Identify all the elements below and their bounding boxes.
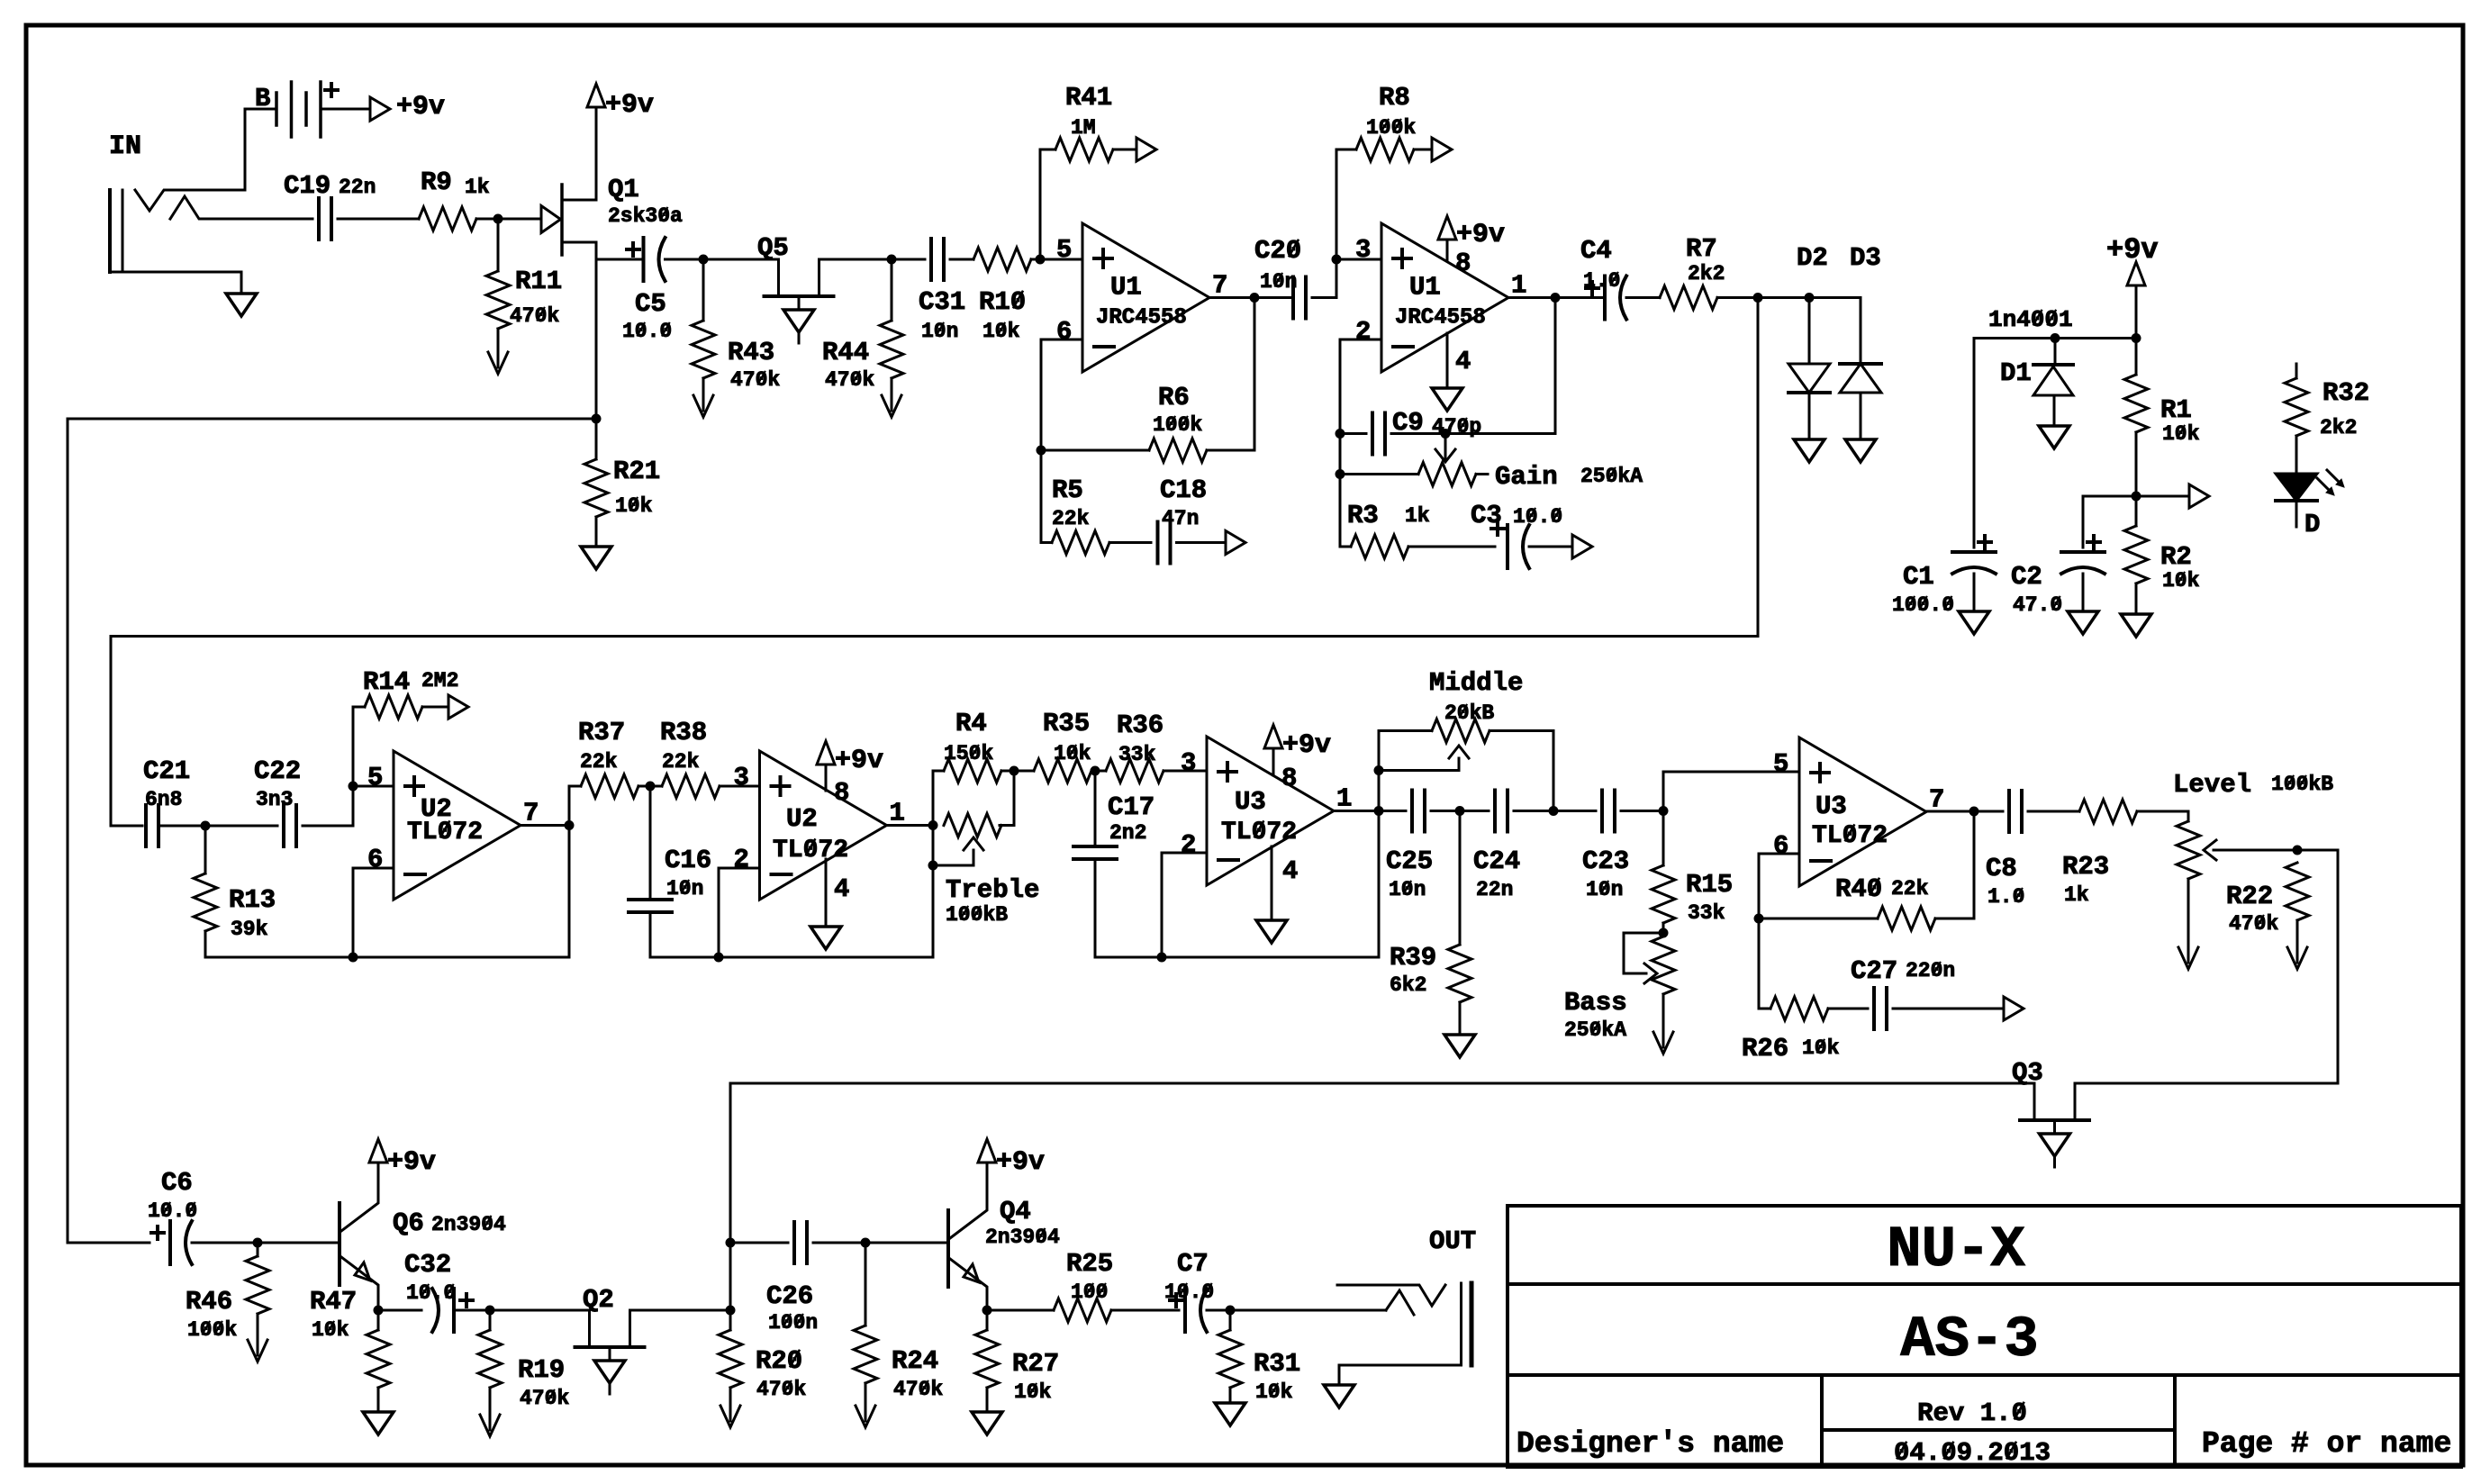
pin 2 label xyxy=(1181,830,1196,860)
wire C24 to node xyxy=(1514,810,1553,812)
wire node to U3b pin5 xyxy=(1663,772,1799,811)
label C22 xyxy=(254,756,301,786)
wire supply rail xyxy=(1974,337,2136,339)
label +9v supply xyxy=(2106,233,2159,267)
transistor Q3 xyxy=(2020,1083,2089,1134)
pin 1 label xyxy=(1511,271,1526,301)
label 10k R31 xyxy=(1255,1380,1293,1404)
label U3 xyxy=(1815,792,1847,821)
wire C20 up to R8 xyxy=(1312,149,1336,298)
svg-text:Q5: Q5 xyxy=(757,233,789,263)
label 10n C23 xyxy=(1586,878,1623,901)
wire C1 to ground xyxy=(1973,574,1976,611)
diode D2 xyxy=(1788,298,1830,394)
label C19 xyxy=(284,171,330,201)
wire R36 to U3 pin3 xyxy=(1164,770,1207,773)
svg-text:7: 7 xyxy=(1212,271,1227,301)
wire emitter to R27 xyxy=(986,1310,989,1330)
label JRC4558 xyxy=(1096,306,1187,330)
wire feedback to output xyxy=(1378,811,1381,958)
capacitor C22 xyxy=(284,805,296,846)
Gain pot wiper arrow xyxy=(1435,449,1455,462)
ground arrow under R24 xyxy=(856,1403,875,1427)
label 10k R1 xyxy=(2162,422,2200,446)
wire Treble track to node xyxy=(1000,771,1014,826)
ground under D3 xyxy=(1845,439,1876,462)
wire C2 to ground xyxy=(2082,574,2085,611)
wire U2 pin6 down xyxy=(353,868,394,957)
svg-text:150k: 150k xyxy=(944,742,993,765)
wire battery minus lead xyxy=(245,108,276,111)
wire C27 to arrow xyxy=(1893,1008,2004,1010)
svg-text:R13: R13 xyxy=(229,885,276,915)
transistor Q2 gate ground xyxy=(594,1361,625,1394)
resistor R36 xyxy=(1106,759,1164,783)
wire R19 to ground xyxy=(489,1388,492,1412)
svg-text:R26: R26 xyxy=(1742,1034,1788,1063)
wire Q3 gate row xyxy=(731,1082,2034,1085)
wire to D3 xyxy=(1809,298,1861,365)
svg-text:R37: R37 xyxy=(578,718,625,747)
resistor R47 xyxy=(367,1330,390,1388)
label 22k R5 xyxy=(1052,507,1090,530)
wire U1b output xyxy=(1508,296,1555,299)
wire U3b pin6 down xyxy=(1759,854,1799,918)
wire node to U1 pin 5 xyxy=(1040,258,1082,261)
svg-text:C21: C21 xyxy=(143,756,190,786)
label 2n3904 Q6 xyxy=(431,1213,506,1236)
label C6 xyxy=(161,1168,193,1198)
label R8 xyxy=(1379,83,1410,113)
label 1n4001 xyxy=(1988,306,2073,333)
capacitor C31 xyxy=(931,239,944,280)
wire node to Q1 gate xyxy=(498,218,541,221)
junction R15/Bass xyxy=(1659,928,1669,938)
svg-text:R7: R7 xyxy=(1686,234,1717,264)
resistor R40 xyxy=(1878,907,1935,930)
svg-text:C16: C16 xyxy=(665,846,711,875)
pin 2 label xyxy=(1355,317,1371,347)
label 100k R6 xyxy=(1153,413,1202,437)
label R35 xyxy=(1043,709,1090,738)
svg-text:R23: R23 xyxy=(2062,852,2109,882)
label Page # or name xyxy=(2202,1427,2451,1461)
wire C6 to node xyxy=(192,1242,258,1244)
label +9v Q6 xyxy=(387,1147,436,1178)
svg-text:C22: C22 xyxy=(254,756,301,786)
svg-text:39k: 39k xyxy=(231,918,268,941)
svg-text:D1: D1 xyxy=(2000,358,2032,388)
junction pin6/R40/R26 xyxy=(1754,914,1764,924)
svg-text:C18: C18 xyxy=(1160,475,1207,505)
wire node to C24 xyxy=(1460,810,1489,812)
wire emitter to R25 xyxy=(987,1309,1054,1312)
label U1 xyxy=(1409,273,1441,303)
label 1k R3 xyxy=(1405,504,1430,528)
wire R8 to arrow xyxy=(1414,149,1432,151)
Treble wiper wire xyxy=(933,850,973,865)
wire source node to left rail xyxy=(68,418,596,421)
label 2n3904 Q4 xyxy=(985,1226,1060,1249)
LED emission arrows xyxy=(2317,470,2344,495)
label C4 xyxy=(1580,236,1612,266)
svg-text:R3: R3 xyxy=(1347,501,1379,530)
ground under U3a pin 4 xyxy=(1256,920,1287,943)
label 22n C24 xyxy=(1476,878,1513,901)
wire R35 to node xyxy=(1091,770,1095,773)
label 100.0 C1 xyxy=(1892,593,1954,617)
junction Middle left xyxy=(1374,765,1384,775)
wire Q2 to node xyxy=(630,1309,731,1312)
ground arrow under R22 xyxy=(2287,945,2307,969)
capacitor C25 xyxy=(1412,791,1425,832)
wire node to R46 xyxy=(257,1243,259,1256)
label 10n C25 xyxy=(1389,878,1426,901)
svg-text:Designer's name: Designer's name xyxy=(1517,1427,1784,1461)
label 6n8 C21 xyxy=(145,788,182,811)
pin 6 label xyxy=(1056,317,1072,347)
svg-text:1k: 1k xyxy=(1405,504,1430,528)
wire R47 to ground xyxy=(377,1388,380,1412)
label TL072 xyxy=(1812,822,1888,850)
junction pin5/R14 xyxy=(349,782,358,792)
label 47.0 C2 xyxy=(2013,593,2062,617)
svg-text:R9: R9 xyxy=(421,167,452,197)
pin 2 label xyxy=(734,845,749,874)
wire Level wiper down to Q3 xyxy=(2078,850,2338,1083)
label C20 xyxy=(1254,236,1301,266)
wire U2b output xyxy=(887,824,934,827)
wire R13 to feedback row xyxy=(205,931,569,957)
label C9 xyxy=(1392,408,1424,438)
wire R43 to ground xyxy=(702,378,705,393)
junction C7/R31 xyxy=(1226,1306,1236,1316)
ground under U1b pin 4 xyxy=(1432,388,1462,411)
label D3 xyxy=(1850,243,1881,273)
arrow +9v at U1b pin 8 xyxy=(1438,216,1456,240)
svg-text:Rev 1.0: Rev 1.0 xyxy=(1917,1398,2027,1428)
label 470p C9 xyxy=(1432,415,1481,439)
wire C3 to arrow xyxy=(1529,546,1572,548)
wire C18 to arrow xyxy=(1177,541,1226,544)
ground arrow under R11 xyxy=(488,349,508,374)
svg-text:R1: R1 xyxy=(2160,395,2192,425)
junction U2b out/Treble xyxy=(928,820,938,830)
svg-text:2n2: 2n2 xyxy=(1109,821,1146,845)
wire C26 to node xyxy=(813,1242,865,1244)
svg-text:R8: R8 xyxy=(1379,83,1410,113)
label JRC4558 xyxy=(1395,306,1486,330)
wire node to D2 xyxy=(1758,296,1809,299)
label 250kA Bass xyxy=(1564,1018,1626,1042)
wire C7 to node xyxy=(1207,1309,1230,1312)
label Bass xyxy=(1564,988,1627,1018)
ground under C2 xyxy=(2068,611,2098,634)
label C8 xyxy=(1986,854,2017,883)
capacitor C7 (polarized) xyxy=(1185,1289,1207,1332)
svg-text:R11: R11 xyxy=(515,267,562,296)
pin 7 label xyxy=(1929,785,1944,815)
junction U3a out xyxy=(1374,806,1384,816)
label 2k2 R7 xyxy=(1688,262,1725,285)
svg-text:470k: 470k xyxy=(730,368,780,392)
wire U3a pin2 down xyxy=(1162,853,1207,957)
svg-text:AS-3: AS-3 xyxy=(1900,1308,2039,1373)
wire D3 to ground xyxy=(1860,393,1862,439)
label 10.0 C32 xyxy=(406,1281,456,1305)
transistor Q3 gate ground xyxy=(2040,1134,2070,1167)
label +9v U3a xyxy=(1282,730,1331,761)
wire node to R13 xyxy=(204,826,207,873)
wire stage1 to stage2 xyxy=(111,298,1758,827)
svg-text:2k2: 2k2 xyxy=(2320,416,2357,439)
svg-text:100kB: 100kB xyxy=(2271,773,2333,796)
label C25 xyxy=(1386,846,1433,876)
capacitor C20 xyxy=(1293,277,1306,319)
label 10n C20 xyxy=(1260,270,1297,294)
junction R35/R36/C17 xyxy=(1091,766,1100,776)
svg-text:Q4: Q4 xyxy=(1000,1197,1031,1226)
svg-text:JRC4558: JRC4558 xyxy=(1096,306,1187,330)
junction U1 out/R6/C20 xyxy=(1250,293,1260,303)
svg-text:R4: R4 xyxy=(955,709,987,738)
wire R32 top stub xyxy=(2295,364,2298,378)
svg-text:10n: 10n xyxy=(666,877,703,900)
resistor R35 xyxy=(1034,759,1091,783)
wire D1 to ground xyxy=(2053,395,2056,426)
svg-text:100n: 100n xyxy=(768,1311,818,1335)
label B xyxy=(255,84,270,113)
junction pin2/C9/Gain xyxy=(1336,429,1345,439)
svg-text:R41: R41 xyxy=(1065,83,1112,113)
svg-text:R14: R14 xyxy=(363,667,410,697)
svg-text:20kB: 20kB xyxy=(1444,701,1494,725)
C32 plus sign xyxy=(460,1294,473,1307)
svg-text:1: 1 xyxy=(1511,271,1526,301)
junction D1 xyxy=(2051,333,2060,343)
svg-text:C32: C32 xyxy=(404,1250,451,1280)
transistor Q1 channel bar xyxy=(560,185,564,255)
label 10k R26 xyxy=(1802,1036,1840,1060)
label Gain xyxy=(1495,462,1558,492)
label C2 xyxy=(2011,562,2042,592)
wire U3a pin 4 stub xyxy=(1271,846,1273,920)
label R31 xyxy=(1254,1349,1300,1379)
wire R1 to node xyxy=(2135,432,2138,496)
resistor R8 xyxy=(1356,138,1414,161)
junction Q1 source node xyxy=(592,414,602,424)
C7 plus sign xyxy=(1170,1294,1182,1307)
label R19 xyxy=(518,1355,565,1385)
potentiometer Treble track xyxy=(944,814,1001,837)
transistor Q5 xyxy=(765,259,834,310)
svg-text:C26: C26 xyxy=(766,1281,813,1311)
pin 5 label xyxy=(1773,749,1788,779)
label Treble xyxy=(946,875,1039,905)
transistor Q4 xyxy=(948,1163,987,1310)
svg-text:Bass: Bass xyxy=(1564,988,1627,1018)
wire node down to R5 xyxy=(1041,450,1052,543)
svg-text:250kA: 250kA xyxy=(1580,465,1643,488)
pin 8 label U2b xyxy=(834,778,849,808)
svg-text:220n: 220n xyxy=(1906,959,1955,982)
wire Q1 source down xyxy=(564,242,596,419)
wire node to R31 xyxy=(1229,1310,1232,1330)
junction Q2/R20/C26 xyxy=(726,1306,736,1316)
label D LED xyxy=(2304,510,2320,539)
label 100n C26 xyxy=(768,1311,818,1335)
wire node down to C16 xyxy=(649,786,652,900)
svg-text:+9v: +9v xyxy=(396,92,445,122)
label 1M R41 xyxy=(1071,116,1096,140)
ground arrow under R46 xyxy=(248,1337,267,1362)
label R25 xyxy=(1066,1249,1113,1279)
wire C5 to node xyxy=(666,258,704,261)
label 20kB Middle xyxy=(1444,701,1494,725)
wire U3b output xyxy=(1926,810,1974,813)
junction C5/R43 xyxy=(699,255,709,265)
svg-text:R39: R39 xyxy=(1390,943,1436,973)
svg-text:JRC4558: JRC4558 xyxy=(1395,306,1486,330)
label C5 xyxy=(635,289,666,319)
capacitor C19 xyxy=(319,198,331,240)
ground arrow under R43 xyxy=(693,393,713,417)
svg-text:R36: R36 xyxy=(1117,710,1164,740)
svg-text:C1: C1 xyxy=(1903,562,1934,592)
pin 5 label xyxy=(367,763,383,792)
svg-text:R38: R38 xyxy=(660,718,707,747)
wire out to C8 xyxy=(1974,810,2003,813)
label R10 xyxy=(979,287,1026,317)
wire Q1 source to C5 xyxy=(596,258,640,261)
wire node to R2 xyxy=(2135,496,2138,526)
label R38 xyxy=(660,718,707,747)
svg-text:C31: C31 xyxy=(919,287,965,317)
diode D1 xyxy=(2033,339,2073,396)
transistor Q2 xyxy=(575,1310,645,1361)
svg-text:2n3904: 2n3904 xyxy=(431,1213,506,1236)
svg-text:+9v: +9v xyxy=(835,746,883,776)
title AS-3 xyxy=(1900,1308,2039,1373)
resistor R15 xyxy=(1652,865,1675,923)
svg-text:+9v: +9v xyxy=(605,90,654,121)
svg-text:10k: 10k xyxy=(1054,742,1091,765)
svg-text:1n4001: 1n4001 xyxy=(1988,306,2073,333)
svg-text:U1: U1 xyxy=(1110,273,1142,303)
svg-text:C25: C25 xyxy=(1386,846,1433,876)
resistor R43 xyxy=(692,321,715,378)
wire R46 to ground xyxy=(257,1314,259,1337)
wire R39 to ground xyxy=(1459,1002,1462,1035)
label C17 xyxy=(1108,792,1154,822)
wire C4 to R7 xyxy=(1626,296,1660,299)
potentiometer Bass track xyxy=(1652,937,1675,994)
wire left rail down to C6 xyxy=(67,419,69,1243)
label 470k R20 xyxy=(756,1378,806,1401)
label R43 xyxy=(728,338,774,367)
label R40 xyxy=(1835,874,1882,904)
wire C31 to R10 xyxy=(950,258,973,261)
label 470k R22 xyxy=(2229,912,2278,936)
wire R2 to ground xyxy=(2135,584,2138,614)
label 10.0 C7 xyxy=(1164,1280,1214,1304)
label TL072 xyxy=(773,837,848,864)
label Designer's name xyxy=(1517,1427,1784,1461)
label R3 xyxy=(1347,501,1379,530)
Middle wiper wire xyxy=(1379,758,1459,771)
wire feedback up to output xyxy=(568,826,571,958)
wire U1b pin 4 stub xyxy=(1446,333,1449,388)
wire node up to Q3 row xyxy=(729,1083,732,1310)
wire down to R3 xyxy=(1340,475,1351,547)
label +9v U2b xyxy=(835,746,883,776)
ground under R27 xyxy=(972,1412,1002,1434)
svg-text:6: 6 xyxy=(367,845,383,874)
svg-text:10k: 10k xyxy=(1014,1380,1052,1404)
label date 04.09.2013 xyxy=(1894,1438,2051,1468)
label C1 xyxy=(1903,562,1934,592)
svg-text:10n: 10n xyxy=(1260,270,1297,294)
svg-text:C3: C3 xyxy=(1471,501,1502,530)
arrow R8 to +9v xyxy=(1432,138,1452,161)
svg-text:8: 8 xyxy=(1455,249,1471,278)
wire U2a output xyxy=(521,824,569,827)
resistor R27 xyxy=(975,1330,999,1388)
svg-text:R19: R19 xyxy=(518,1355,565,1385)
svg-text:6n8: 6n8 xyxy=(145,788,182,811)
wire node to R36 xyxy=(1095,770,1106,773)
svg-text:10n: 10n xyxy=(1586,878,1623,901)
resistor R4 xyxy=(944,759,1001,783)
svg-text:2: 2 xyxy=(1181,830,1196,860)
label 470k R11 xyxy=(510,304,559,328)
junction pin6 feedback xyxy=(349,953,358,963)
svg-text:R5: R5 xyxy=(1052,475,1083,505)
capacitor C6 (polarized) xyxy=(170,1221,192,1264)
svg-text:R35: R35 xyxy=(1043,709,1090,738)
svg-text:10k: 10k xyxy=(615,494,653,518)
label R6 xyxy=(1158,383,1190,412)
wire jack sleeve to ground xyxy=(240,272,243,294)
svg-text:Q1: Q1 xyxy=(608,175,639,204)
label R21 xyxy=(613,457,660,486)
C3 plus sign xyxy=(1491,522,1504,535)
junction D2/D3 xyxy=(1805,293,1815,303)
junction R4/R35 xyxy=(1010,766,1019,776)
svg-text:1M: 1M xyxy=(1071,116,1096,140)
label R1 xyxy=(2160,395,2192,425)
wire node to R15 xyxy=(1662,811,1665,866)
svg-text:10k: 10k xyxy=(2162,422,2200,446)
wire U1 pin6 down xyxy=(1041,339,1082,450)
svg-text:10n: 10n xyxy=(1389,878,1426,901)
junction R9/R11/Q1 gate xyxy=(493,214,503,224)
label R4 xyxy=(955,709,987,738)
svg-text:5: 5 xyxy=(367,763,383,792)
wire C21 to node xyxy=(158,825,205,828)
wire node to R44 xyxy=(891,259,893,321)
wire Gain track end xyxy=(1476,473,1488,475)
pin 3 label xyxy=(1355,235,1371,265)
label +9v Q1 xyxy=(605,90,654,121)
svg-text:D2: D2 xyxy=(1797,243,1828,273)
wire Q5 to node xyxy=(819,258,892,261)
wire node to R35 xyxy=(1014,770,1034,773)
wire C8 to R23 xyxy=(2028,810,2079,813)
label U3 xyxy=(1235,787,1266,817)
wire D2 to ground xyxy=(1808,393,1811,439)
svg-text:R25: R25 xyxy=(1066,1249,1113,1279)
